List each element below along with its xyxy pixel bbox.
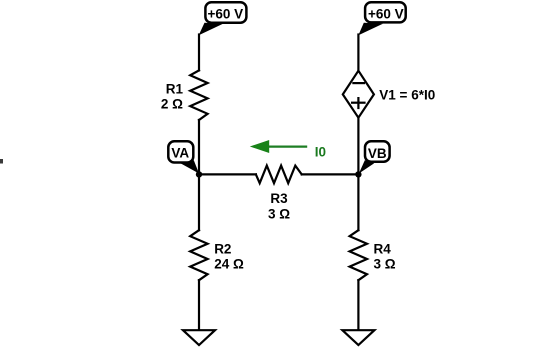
svg-text:I0: I0 [315, 144, 326, 159]
svg-text:2 Ω: 2 Ω [161, 96, 183, 111]
svg-text:+60 V: +60 V [368, 6, 404, 21]
svg-text:VA: VA [171, 146, 189, 161]
svg-text:24 Ω: 24 Ω [214, 257, 244, 272]
svg-text:R1: R1 [166, 81, 184, 96]
svg-text:VB: VB [368, 146, 387, 161]
svg-text:R2: R2 [214, 242, 231, 257]
svg-text:V1 = 6*I0: V1 = 6*I0 [379, 88, 435, 103]
svg-text:R3: R3 [270, 191, 288, 206]
svg-text:3 Ω: 3 Ω [268, 206, 290, 221]
svg-text:+60 V: +60 V [207, 6, 243, 21]
svg-text:3 Ω: 3 Ω [374, 257, 396, 272]
svg-text:R4: R4 [374, 242, 392, 257]
